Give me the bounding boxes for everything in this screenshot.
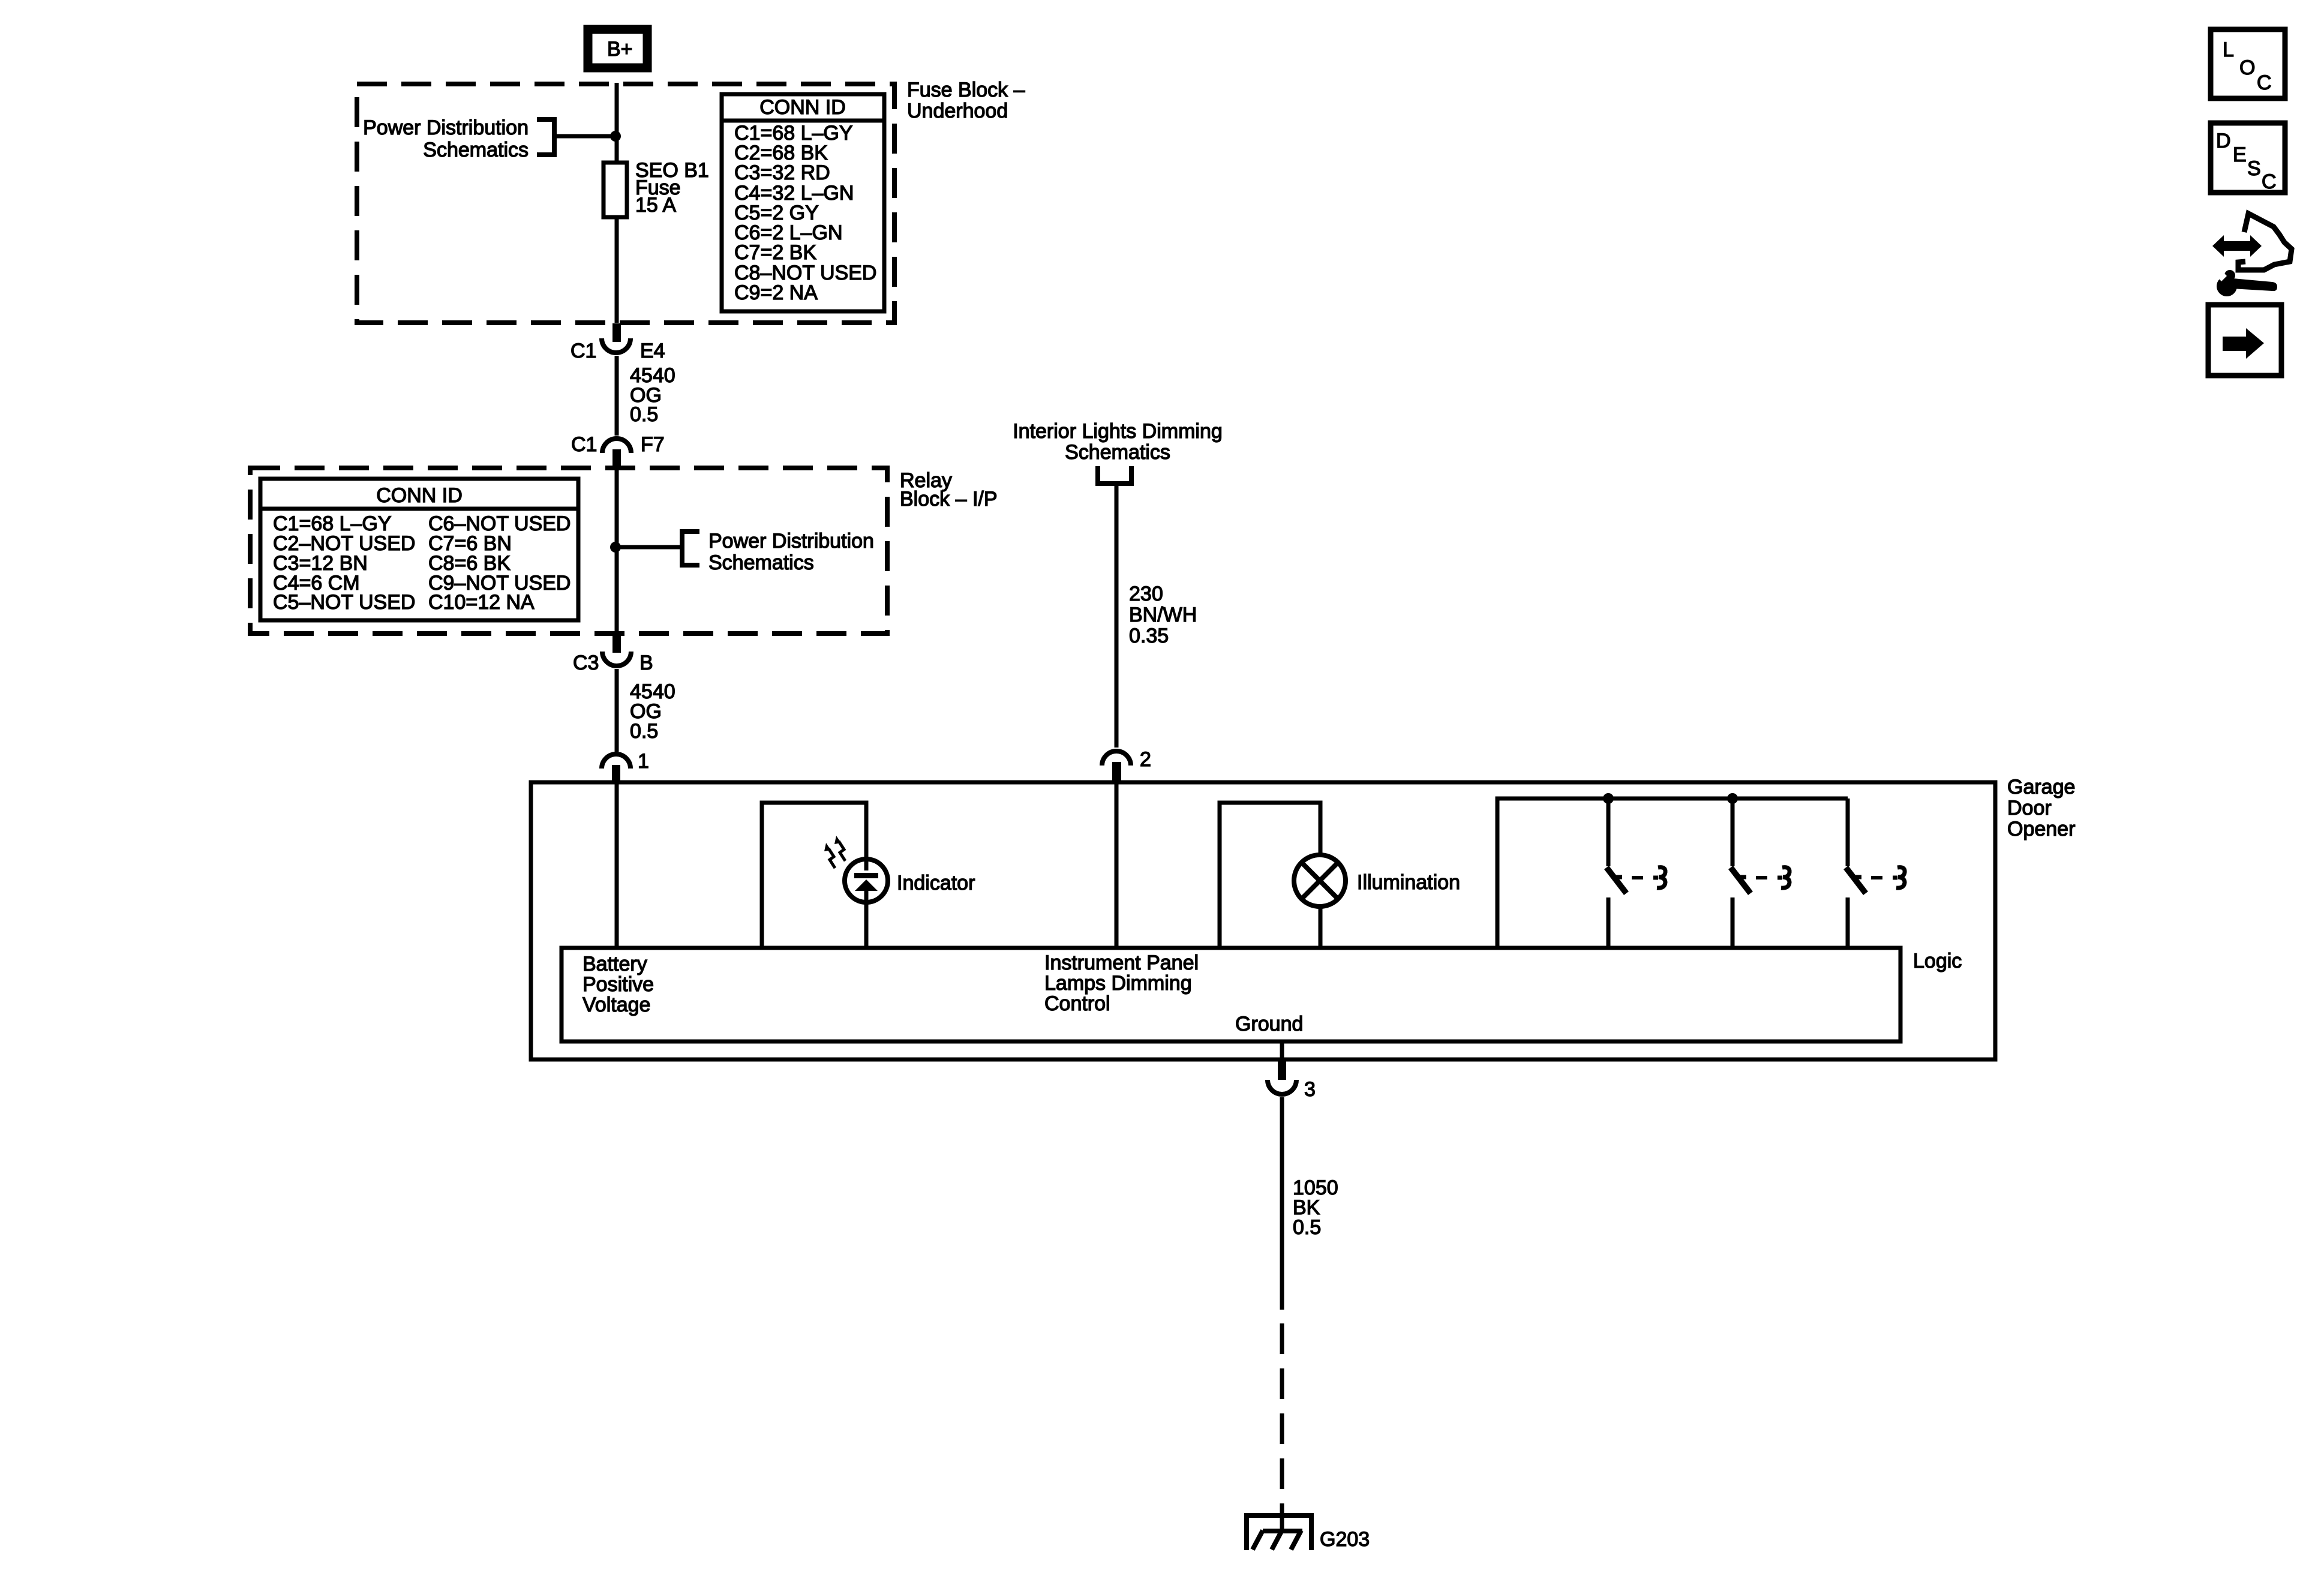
svg-text:Logic: Logic: [1913, 950, 1962, 972]
wire label 4540 OG 0.5 (lower): [630, 680, 675, 743]
svg-text:O: O: [2239, 56, 2255, 79]
dashed wire to ground G203: [1280, 1323, 1284, 1512]
label Relay Block - I/P: [900, 469, 998, 511]
svg-text:Block – I/P: Block – I/P: [900, 488, 998, 511]
svg-text:Illumination: Illumination: [1357, 871, 1460, 894]
svg-text:Control: Control: [1044, 992, 1110, 1015]
forward arrow icon box: [2208, 305, 2281, 376]
svg-text:C1: C1: [571, 340, 596, 362]
illumination lamp symbol: [1294, 855, 1346, 906]
label Fuse Block - Underhood: [907, 79, 1025, 122]
svg-text:Schematics: Schematics: [423, 139, 529, 161]
svg-text:CONN ID: CONN ID: [376, 484, 463, 507]
connector C1 F7 (relay block side): [571, 433, 665, 469]
svg-text:C: C: [2257, 71, 2272, 94]
switch S3: [1846, 798, 1905, 948]
wire label 4540 OG 0.5 (upper): [630, 364, 675, 426]
label Battery Positive Voltage: [582, 953, 654, 1016]
fuse block dashed box: [357, 84, 894, 323]
svg-text:Power Distribution: Power Distribution: [708, 530, 874, 553]
connector C1 E4 (fuse block side): [571, 323, 665, 362]
svg-text:Fuse Block –: Fuse Block –: [907, 79, 1025, 101]
svg-text:C: C: [2262, 170, 2277, 193]
wire fuse to connector E4: [615, 217, 619, 323]
connector C3 B (relay block bottom): [573, 635, 653, 674]
svg-text:Underhood: Underhood: [907, 100, 1008, 122]
svg-text:2: 2: [1140, 748, 1151, 771]
ground wire from logic to garage box edge: [1280, 1041, 1284, 1059]
connector pin 1 (garage door opener): [602, 750, 649, 783]
svg-text:C1: C1: [571, 433, 597, 456]
svg-text:L: L: [2223, 38, 2234, 61]
svg-text:1: 1: [638, 750, 649, 773]
CONN ID table (relay block): [260, 479, 578, 620]
wire instrument panel dimming inside garage door opener: [1115, 782, 1119, 948]
relay block dashed box: [250, 468, 887, 634]
garage door opener box: [531, 782, 1995, 1059]
svg-text:Voltage: Voltage: [582, 993, 650, 1016]
svg-text:C3: C3: [573, 652, 599, 674]
switch S2: [1731, 798, 1789, 948]
svg-text:Schematics: Schematics: [708, 551, 814, 574]
wire label 230 BN/WH 0.35: [1129, 583, 1197, 647]
svg-text:Battery: Battery: [582, 953, 647, 975]
svg-text:15 A: 15 A: [635, 194, 676, 217]
bracket to Power Distribution label (fuse block): [537, 119, 554, 155]
svg-text:C3=32 RD: C3=32 RD: [734, 161, 830, 184]
tap wire to bracket (relay block): [615, 545, 682, 550]
svg-text:Ground: Ground: [1235, 1013, 1303, 1035]
svg-text:Door: Door: [2007, 797, 2052, 819]
svg-text:G203: G203: [1320, 1528, 1370, 1551]
connector pin 2 (garage door opener): [1102, 748, 1151, 782]
svg-text:D: D: [2216, 130, 2231, 152]
svg-text:Interior Lights Dimming: Interior Lights Dimming: [1013, 420, 1223, 443]
DESC icon box: [2211, 123, 2285, 193]
junction node dot switch 1: [1603, 793, 1614, 804]
svg-text:Indicator: Indicator: [897, 872, 975, 894]
svg-text:Schematics: Schematics: [1065, 441, 1170, 464]
svg-text:230: 230: [1129, 583, 1163, 605]
svg-text:E: E: [2233, 143, 2247, 166]
svg-text:Garage: Garage: [2007, 776, 2075, 798]
switch bus wiring: [1497, 798, 1848, 948]
connector pin 3 (garage door opener): [1268, 1061, 1316, 1101]
svg-text:C7=2 BK: C7=2 BK: [734, 241, 816, 264]
svg-text:BN/WH: BN/WH: [1129, 604, 1197, 626]
wire label 1050 BK 0.5: [1293, 1176, 1338, 1239]
label Garage Door Opener: [2007, 776, 2075, 840]
label Power Distribution Schematics (relay block): [708, 530, 874, 574]
svg-text:C10=12 NA: C10=12 NA: [428, 591, 535, 614]
LED indicator symbol: [824, 836, 888, 902]
svg-text:0.5: 0.5: [630, 403, 658, 426]
CONN ID table (fuse block underhood): [722, 94, 884, 311]
junction node dot (relay block): [610, 542, 621, 553]
svg-text:Instrument Panel: Instrument Panel: [1044, 951, 1199, 974]
svg-text:0.35: 0.35: [1129, 625, 1169, 647]
svg-text:3: 3: [1304, 1078, 1316, 1101]
LOC icon box: [2211, 29, 2285, 98]
junction node dot switch 2: [1727, 793, 1738, 804]
power node B+: [588, 29, 647, 68]
svg-text:S: S: [2247, 157, 2261, 180]
switch S1: [1607, 798, 1665, 948]
svg-text:B: B: [639, 652, 653, 674]
wire through relay block: [615, 469, 619, 635]
svg-text:0.5: 0.5: [1293, 1216, 1321, 1239]
svg-text:F7: F7: [641, 433, 665, 456]
wire B to pin 1 circuit 4540: [615, 669, 619, 752]
logic box: [562, 948, 1900, 1041]
svg-text:Positive: Positive: [582, 973, 654, 996]
fuse SEO B1 15 A: [603, 159, 709, 217]
adjustable component icon (double arrow, outline, wrench): [2211, 214, 2292, 296]
svg-text:Opener: Opener: [2007, 818, 2075, 840]
svg-text:CONN ID: CONN ID: [759, 96, 846, 119]
svg-text:C9=2 NA: C9=2 NA: [734, 281, 818, 304]
illumination branch wiring: [1220, 803, 1320, 948]
svg-text:Lamps Dimming: Lamps Dimming: [1044, 972, 1192, 995]
wire circuit 1050 BK: [1280, 1097, 1284, 1310]
wire B+ feed into fuse block: [615, 83, 619, 163]
ground symbol G203: [1244, 1509, 1313, 1550]
svg-text:Power Distribution: Power Distribution: [363, 116, 529, 139]
junction node dot (fuse block): [610, 131, 621, 142]
indicator branch wiring: [762, 803, 866, 948]
svg-text:0.5: 0.5: [630, 720, 658, 743]
svg-text:C5–NOT USED: C5–NOT USED: [273, 591, 415, 614]
svg-text:B+: B+: [607, 38, 633, 61]
label Power Distribution Schematics (fuse block): [363, 116, 529, 161]
svg-text:E4: E4: [640, 340, 665, 362]
bracket to Power Distribution label (relay block): [682, 532, 699, 565]
wire circuit 230 to pin 2: [1115, 484, 1119, 748]
label Interior Lights Dimming Schematics: [1013, 420, 1223, 464]
tap wire to bracket: [554, 134, 617, 139]
label Instrument Panel Lamps Dimming Control: [1044, 951, 1199, 1015]
wire battery feed inside garage door opener: [615, 782, 619, 948]
bracket under Interior Lights Dimming label: [1098, 466, 1131, 484]
wire E4 to F7 circuit 4540: [615, 356, 619, 436]
